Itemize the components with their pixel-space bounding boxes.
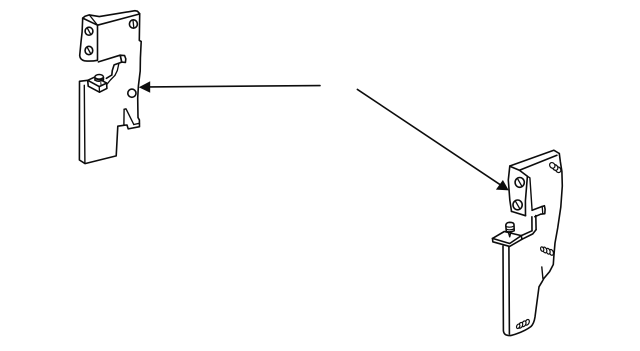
left bracket main plate right edge and lower outline (79, 14, 141, 164)
right bracket top flange inner edge (519, 155, 557, 170)
left bracket flange screw hole (129, 20, 137, 28)
right bracket front face thickness (527, 176, 532, 210)
right bracket top flange outer edge (510, 150, 560, 166)
left bracket stud (95, 75, 104, 80)
right bracket platform rim (493, 236, 522, 247)
left bracket top flange inner edge (98, 14, 140, 25)
left bracket flange corner crease (89, 15, 97, 25)
right bracket z-flange drop (532, 216, 536, 231)
right bracket back plate outline (511, 154, 563, 336)
right bracket front face right edge (525, 176, 527, 215)
left bracket front face (80, 18, 98, 61)
left bracket top flange outer edge (83, 11, 140, 18)
right bracket front face bottom edge (512, 211, 526, 215)
right bracket front face top edge (510, 166, 528, 176)
left bracket z-flange end cap (120, 55, 126, 62)
right bracket screw hole 1 (515, 178, 524, 188)
right bracket threaded stud bottom (516, 319, 530, 329)
left bracket screw hole 1 (85, 27, 93, 35)
right bracket bar (503, 246, 511, 336)
left bracket round hole (128, 89, 136, 97)
right bracket z-flange bottom (535, 214, 541, 217)
left bracket z-flange bend (112, 62, 122, 75)
left bracket z-flange upper arm (98, 55, 120, 62)
right bracket threaded stud middle (540, 246, 554, 255)
left bracket hook tab (124, 109, 134, 125)
right bracket platform top face (493, 231, 533, 239)
left bracket lower-plate inner left edge (83, 85, 86, 162)
right bracket z-flange strip (532, 207, 542, 211)
arrow to left bracket (150, 86, 320, 87)
right bracket bolt (506, 222, 514, 232)
left bracket z-flange lower arm (106, 75, 111, 78)
right bracket screw hole 2 (513, 200, 522, 210)
arrow to right bracket (357, 89, 500, 184)
right bracket step crease (542, 267, 543, 279)
left bracket stud platform top face (88, 77, 107, 87)
left bracket stud platform sides (88, 80, 107, 92)
right bracket threaded stud top (549, 162, 562, 174)
left bracket screw hole 2 (85, 46, 93, 54)
right bracket bolt tip (509, 233, 511, 237)
right bracket front face left edge (508, 166, 511, 211)
right bracket z-flange cap (541, 206, 545, 215)
